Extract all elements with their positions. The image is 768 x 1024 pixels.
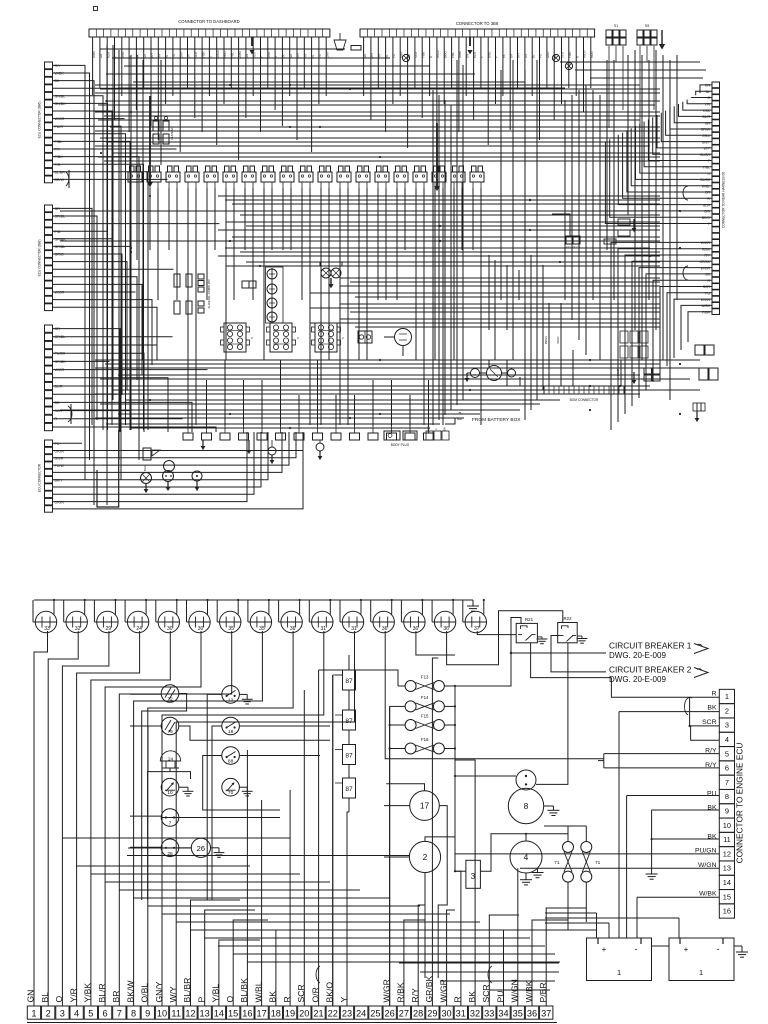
wire [110, 126, 660, 128]
wire [218, 255, 660, 257]
wire [60, 240, 660, 242]
left ECU connector pin [45, 100, 53, 107]
wire [53, 427, 217, 432]
wire [142, 60, 144, 360]
wire [590, 77, 703, 79]
left ECU connector pin [45, 366, 53, 373]
wire feed to pin5/6 bracket [598, 760, 604, 762]
wire into 17 left [384, 805, 410, 807]
svg-text:10: 10 [167, 790, 173, 796]
svg-text:28: 28 [413, 1008, 423, 1018]
strip pin 31 [454, 1006, 467, 1019]
relay R22 [558, 623, 578, 643]
wire [399, 37, 401, 96]
warning lamp 4 [267, 312, 277, 322]
capacitor symbol at left rail G1 [66, 172, 69, 186]
wire [274, 37, 276, 110]
wire [53, 96, 104, 430]
strip pin 22 [326, 1006, 339, 1019]
svg-text:1: 1 [699, 968, 703, 977]
wire [504, 930, 597, 1006]
svg-text:2: 2 [725, 706, 729, 715]
wire [149, 188, 151, 250]
svg-text:11: 11 [171, 1008, 181, 1018]
wire [487, 37, 489, 145]
wire [358, 188, 360, 360]
wire [106, 45, 108, 505]
wire [100, 378, 690, 380]
svg-text:O: O [707, 96, 710, 100]
wire [165, 37, 167, 104]
wire [186, 600, 188, 622]
wire [53, 432, 290, 465]
wire [667, 293, 712, 366]
wire [176, 631, 354, 1006]
relay unit 18 [451, 172, 465, 182]
strip pin 9 [141, 1006, 154, 1019]
svg-text:F16: F16 [421, 737, 429, 742]
wire [346, 812, 348, 1006]
wire [399, 962, 559, 964]
ECU pin 4 [719, 732, 734, 746]
wire [93, 600, 95, 622]
wire [138, 188, 140, 425]
wire [53, 231, 108, 410]
svg-text:2: 2 [46, 1008, 51, 1018]
switch 26 [161, 839, 179, 857]
wire [53, 126, 122, 480]
wire [350, 281, 660, 283]
svg-text:70: 70 [228, 790, 234, 796]
svg-text:P/BR: P/BR [702, 310, 710, 314]
wire 17 right down [438, 806, 447, 978]
strip pin 13 [198, 1006, 211, 1019]
relay block 1 [224, 323, 246, 352]
connector strip CONNECTOR TO DASHBOARD [89, 29, 330, 37]
svg-text:1: 1 [725, 692, 729, 701]
arrow CB1 [694, 644, 708, 654]
wire [247, 600, 249, 622]
ground near pin13 wire [537, 868, 539, 872]
wire [301, 188, 303, 300]
wire [531, 37, 533, 96]
wire [243, 380, 245, 426]
svg-text:CIRCUIT BREAKER 2: CIRCUIT BREAKER 2 [609, 665, 692, 675]
warning lamp 3 [267, 298, 277, 308]
left ECU connector pin [45, 374, 53, 381]
wire [53, 336, 173, 338]
left ECU connector pin [45, 85, 53, 92]
wire [561, 37, 563, 104]
strip pin 21 [312, 1006, 325, 1019]
wire [674, 106, 712, 123]
BOM connector strip [544, 386, 624, 394]
wire [240, 251, 660, 253]
ground right of 12 [239, 693, 247, 695]
wire [418, 905, 425, 1006]
ECU pin 11 [719, 832, 734, 846]
wire [674, 299, 712, 358]
svg-text:17: 17 [256, 1008, 266, 1018]
wire [320, 188, 322, 425]
pump small circle [516, 770, 536, 790]
wire [48, 631, 78, 1006]
gauge 35 [220, 611, 241, 632]
svg-text:BK: BK [707, 705, 717, 712]
svg-text:7: 7 [169, 821, 172, 827]
right relay grid 1 [620, 331, 628, 343]
left ECU connector pin [45, 391, 53, 398]
switch 88 [222, 747, 240, 765]
svg-text:FROM BATTERY BOX: FROM BATTERY BOX [472, 417, 521, 423]
svg-text:88: 88 [228, 759, 234, 765]
svg-text:BK/GN: BK/GN [544, 336, 548, 344]
wire crossing loop [684, 697, 692, 715]
right mini rail [693, 403, 697, 411]
relay unit 5 [204, 172, 218, 182]
relay unit 7 [242, 172, 256, 182]
lamp 24 [160, 751, 180, 761]
wire [311, 37, 313, 152]
gauge 30 [189, 611, 210, 632]
svg-text:Y/R: Y/R [68, 988, 78, 1002]
svg-text:R: R [712, 690, 717, 697]
wire [157, 188, 159, 300]
wire [53, 432, 248, 502]
wire [420, 971, 559, 973]
fuse F16 [405, 743, 416, 754]
wire [281, 37, 283, 126]
wire [92, 37, 94, 95]
wire [385, 37, 387, 132]
svg-text:30: 30 [441, 1008, 451, 1018]
wire [53, 164, 144, 430]
wire [104, 115, 660, 117]
wire [150, 37, 152, 126]
relay unit 4 [185, 172, 199, 182]
svg-text:DWG. 20-E-009: DWG. 20-E-009 [609, 651, 666, 660]
svg-text:GR/O: GR/O [55, 253, 64, 257]
wire ECU pin5/6 [603, 754, 605, 768]
wire [106, 37, 108, 104]
svg-text:8: 8 [725, 792, 729, 801]
wire [218, 229, 660, 231]
battery feed cluster [471, 369, 480, 378]
wire [91, 873, 300, 875]
alternator circle [395, 329, 412, 346]
wire [524, 37, 526, 112]
svg-text:Y/BK: Y/BK [83, 983, 93, 1003]
wire [429, 37, 431, 96]
alternator wires [384, 336, 395, 338]
svg-text:GN/Y: GN/Y [702, 140, 711, 144]
wire [53, 239, 113, 405]
svg-text:CONNECTOR TO DASHBOARD: CONNECTOR TO DASHBOARD [178, 19, 239, 24]
wire [53, 385, 175, 387]
left ECU connector pin [45, 176, 53, 183]
svg-text:BL/BR: BL/BR [700, 153, 710, 157]
svg-text:BL/R: BL/R [143, 465, 147, 471]
wire [162, 913, 450, 915]
wire [606, 60, 608, 250]
wire [105, 363, 660, 365]
svg-text:BL/R: BL/R [97, 983, 107, 1002]
wire [524, 70, 526, 420]
wire [509, 37, 511, 130]
ground right of 70 [239, 786, 247, 788]
wire [644, 122, 712, 167]
svg-text:PU: PU [55, 442, 60, 446]
strip pin 15 [227, 1006, 240, 1019]
right pair boxes 2 [699, 368, 708, 380]
svg-text:GN: GN [705, 84, 711, 88]
wire ECU pin12 [455, 853, 719, 855]
wire BK ground stem [651, 810, 653, 874]
wire [415, 188, 417, 360]
svg-text:12: 12 [723, 849, 731, 858]
svg-text:BK: BK [55, 79, 60, 83]
wire [100, 88, 660, 90]
svg-text:CONNECTOR TO ENGINE ECU: CONNECTOR TO ENGINE ECU [735, 743, 745, 864]
wire into 2 left [384, 856, 409, 858]
wire [118, 50, 120, 460]
wire [431, 600, 433, 622]
strip pin 6 [98, 1006, 111, 1019]
wire [77, 631, 140, 1006]
wire [488, 255, 490, 330]
svg-text:33: 33 [484, 1008, 494, 1018]
svg-text:8: 8 [524, 801, 529, 811]
wire [444, 705, 455, 707]
svg-text:W/GN: W/GN [556, 336, 560, 343]
wire [127, 855, 409, 857]
ECU pin 6 [719, 761, 734, 775]
wire [276, 930, 300, 1006]
wires around left gauge cluster [130, 693, 161, 695]
wire [648, 119, 712, 160]
wire [432, 90, 434, 425]
wire [571, 95, 573, 320]
wire [53, 73, 90, 460]
wire [247, 961, 560, 963]
wire [309, 188, 311, 425]
wire 3 right up [480, 834, 567, 871]
wire [452, 600, 454, 615]
svg-text:W/GR: W/GR [55, 117, 65, 121]
left ECU connector pin [45, 161, 53, 168]
wire ECU pin15 [637, 896, 719, 898]
wire [53, 148, 177, 150]
svg-text:87: 87 [345, 718, 353, 725]
wire ECU pin11 [652, 838, 720, 840]
svg-text:R21: R21 [525, 617, 534, 622]
connector stub 6 [276, 433, 286, 440]
relay unit 11 [318, 172, 332, 182]
wire [130, 55, 132, 430]
ground right of big 26 [211, 847, 220, 849]
wire [95, 145, 650, 147]
svg-text:GN/BL: GN/BL [55, 94, 66, 98]
wire [133, 81, 525, 83]
switch 7 [161, 809, 179, 827]
svg-text:GR/BK: GR/BK [699, 260, 710, 264]
svg-text:+: + [602, 945, 607, 954]
strip pin 27 [397, 1006, 410, 1019]
svg-text:24: 24 [356, 1008, 366, 1018]
wire [303, 37, 305, 88]
wire [623, 133, 712, 199]
svg-text:BR: BR [111, 991, 121, 1003]
strip pin 1 [27, 1006, 40, 1019]
svg-text:14: 14 [214, 1008, 224, 1018]
wire [627, 130, 712, 192]
wire [317, 360, 319, 426]
warning lamp 2 [267, 284, 277, 294]
connector stub 7 [294, 433, 304, 440]
wire [53, 141, 131, 430]
wire [233, 953, 555, 955]
wire [252, 37, 254, 96]
left ECU connector pin [45, 333, 53, 340]
wire [290, 188, 292, 250]
wire [385, 188, 387, 300]
bottom-left double sensor [164, 461, 175, 472]
connector stub 9 [331, 433, 341, 440]
wire [512, 60, 514, 360]
wire [155, 600, 157, 622]
svg-text:BR: BR [443, 427, 447, 431]
motor 2 [409, 841, 440, 872]
wire [517, 37, 519, 88]
gauge 31 [312, 611, 333, 632]
ECU pin 1 [719, 689, 734, 703]
ground arrow below right grid [633, 372, 635, 380]
wire [377, 37, 379, 88]
wire [53, 300, 153, 365]
sensor circle under stub row 1 [268, 447, 276, 455]
wire [575, 69, 706, 71]
wire [53, 432, 262, 487]
wire [106, 73, 475, 75]
wire [105, 631, 201, 1006]
wire [53, 307, 158, 360]
wire [434, 188, 436, 360]
wire [95, 367, 705, 369]
strip pin 32 [468, 1006, 481, 1019]
left ECU connector pin [45, 281, 53, 288]
svg-text:5: 5 [725, 749, 729, 758]
svg-text:O/GN: O/GN [55, 500, 65, 504]
svg-text:BODY PLUG: BODY PLUG [391, 443, 410, 447]
wire [176, 188, 178, 300]
wire [666, 111, 712, 136]
wire 18 right long [239, 725, 330, 727]
strip pin 37 [540, 1006, 553, 1019]
strip pin 7 [113, 1006, 126, 1019]
wire [585, 85, 587, 355]
diode pill 1 [618, 219, 630, 225]
svg-text:W/GR: W/GR [701, 266, 711, 270]
wire [118, 413, 480, 415]
wire crossing loop near pin 19 [316, 966, 320, 983]
relay block 3 [315, 323, 337, 352]
wire ECU pin9 [652, 809, 720, 811]
wire [676, 55, 678, 300]
wire [214, 188, 216, 250]
svg-text:Y/BL: Y/BL [703, 166, 710, 170]
wire [641, 55, 643, 360]
wire [455, 760, 475, 1006]
left ECU connector pin [45, 251, 53, 258]
wire [354, 395, 356, 426]
wire [546, 37, 548, 88]
wire [605, 141, 712, 223]
bold arrow under dashboard strip [251, 37, 253, 46]
svg-text:BR/W: BR/W [55, 178, 65, 182]
wire [409, 395, 411, 426]
svg-text:11: 11 [723, 835, 731, 844]
wire [53, 81, 95, 505]
wire [536, 60, 538, 400]
left ECU connector pin [45, 440, 53, 447]
wire [400, 600, 402, 622]
wire [252, 188, 254, 300]
svg-text:27: 27 [399, 1008, 409, 1018]
wire [225, 247, 650, 249]
wire [53, 118, 125, 120]
left ECU connector pin [45, 462, 53, 469]
wire [325, 37, 327, 96]
wire [135, 37, 137, 110]
fuse 71 right [581, 842, 592, 853]
wire [53, 216, 98, 420]
svg-text:29: 29 [427, 1008, 437, 1018]
wire [246, 750, 248, 1006]
relay unit 15 [394, 172, 408, 182]
ground arrow right of pills [633, 219, 635, 228]
ground on gauge bus [472, 600, 474, 606]
sender 72 [161, 685, 179, 703]
left ECU connector pin [45, 273, 53, 280]
wire [53, 262, 128, 390]
wire [172, 37, 174, 96]
arrow CB2 [694, 668, 708, 678]
strip pin 8 [127, 1006, 140, 1019]
ground right of battery 2 [734, 945, 742, 947]
wire pump right up [536, 648, 568, 784]
wire [104, 160, 660, 162]
wire [428, 380, 430, 426]
svg-text:-: - [635, 944, 638, 954]
wire [232, 236, 660, 238]
relay unit 14 [375, 172, 389, 182]
left ECU connector pin [45, 350, 53, 357]
svg-text:26: 26 [385, 1008, 395, 1018]
svg-text:O: O [54, 996, 64, 1003]
svg-text:Y/BK: Y/BK [702, 109, 710, 113]
wire [458, 37, 460, 132]
wire [91, 631, 170, 1006]
wire [263, 188, 265, 360]
wire [53, 600, 55, 615]
wire [653, 117, 712, 154]
wire [568, 37, 570, 88]
left ECU connector pin [45, 77, 53, 84]
diode pill 3 [604, 239, 616, 244]
wire [440, 980, 555, 982]
wire [631, 128, 712, 186]
wire [226, 221, 660, 223]
